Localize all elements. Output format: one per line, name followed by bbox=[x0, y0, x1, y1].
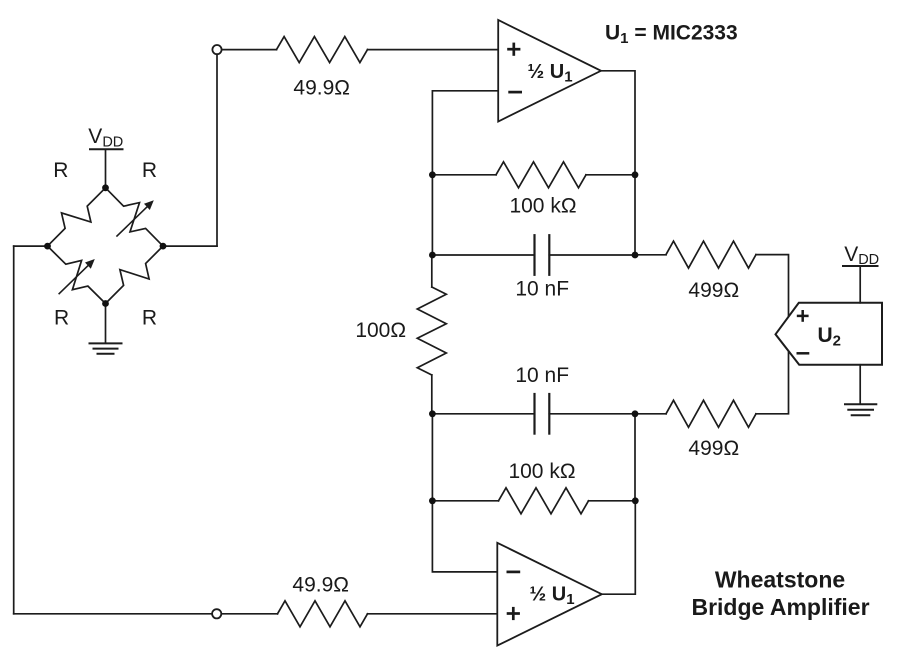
resistor 49.9 ohm top bbox=[277, 37, 368, 63]
op-amp U1A minus sign bbox=[508, 91, 522, 94]
svg-text:100 kΩ: 100 kΩ bbox=[509, 195, 576, 218]
node cap2 right bbox=[632, 410, 639, 417]
wire cap1 right lead bbox=[549, 254, 635, 256]
wire bottom terminal to resistor 49.9 bottom bbox=[221, 613, 277, 615]
svg-text:10 nF: 10 nF bbox=[515, 364, 569, 387]
resistor 499 ohm bottom bbox=[666, 400, 756, 427]
node 100k2 right bbox=[632, 497, 639, 504]
wire left rail vertical bbox=[13, 246, 15, 614]
wire bridge bottom node to ground bbox=[105, 304, 107, 344]
resistor 499 ohm top bbox=[666, 241, 756, 268]
wire vertical from top terminal down to bridge right node bbox=[216, 54, 218, 246]
wire U1A output to right rail bbox=[601, 71, 635, 175]
wire top from terminal to resistor R 49.9 top bbox=[222, 49, 277, 51]
svg-text:49.9Ω: 49.9Ω bbox=[292, 574, 349, 597]
bridge resistor R top-left bbox=[48, 188, 106, 246]
svg-text:U1 = MIC2333: U1 = MIC2333 bbox=[605, 22, 738, 48]
capacitor 10 nF bottom plate left bbox=[533, 394, 535, 434]
bridge resistor R top-right (variable) bbox=[106, 188, 164, 246]
op-amp U1B minus sign bbox=[507, 571, 521, 574]
svg-text:499Ω: 499Ω bbox=[688, 279, 739, 302]
wire left rail 100k1 to cap1 bbox=[431, 175, 433, 255]
svg-text:Wheatstone: Wheatstone bbox=[715, 567, 845, 593]
svg-text:R: R bbox=[142, 159, 157, 182]
svg-text:10 nF: 10 nF bbox=[515, 278, 569, 301]
node cap1 right bbox=[632, 252, 639, 259]
ground symbol (bridge) bbox=[89, 342, 123, 344]
node 100k2 left bbox=[429, 497, 436, 504]
op-amp U1B triangle bbox=[497, 543, 602, 646]
node bridge top bbox=[102, 184, 109, 191]
wire U1B output to right rail bbox=[602, 501, 636, 594]
power symbol VDD bar (bridge) bbox=[89, 148, 124, 150]
capacitor 10 nF bottom plate right bbox=[548, 394, 550, 434]
terminal top (open circle) bbox=[212, 45, 221, 54]
wire 100 ohm bottom lead bbox=[431, 375, 433, 414]
svg-text:100 kΩ: 100 kΩ bbox=[508, 460, 575, 483]
node bridge bottom bbox=[102, 300, 109, 307]
wire VDD to bridge top node bbox=[105, 150, 107, 188]
arrow variable resistor top-right bbox=[116, 200, 153, 236]
wire bridge right node to vertical bbox=[163, 245, 217, 247]
resistor 100 kOhm bottom bbox=[499, 488, 589, 514]
svg-text:R: R bbox=[54, 306, 69, 329]
wire cap2 right lead bbox=[549, 413, 635, 415]
capacitor 10 nF top plate right bbox=[548, 235, 550, 275]
wire 499 bottom to U2 - input bbox=[756, 351, 789, 414]
wire U2 ground bbox=[859, 365, 861, 404]
wire 100k2 right lead bbox=[589, 500, 636, 502]
wire 100k2 left lead bbox=[432, 500, 498, 502]
wire U1B inverting input feedback bbox=[432, 501, 497, 572]
op-amp U1A triangle bbox=[498, 20, 601, 122]
power symbol VDD bar (U2) bbox=[842, 265, 879, 267]
node cap2 left bbox=[429, 410, 436, 417]
wire cap2 left lead bbox=[432, 413, 534, 415]
arrow variable resistor bottom-left bbox=[59, 259, 95, 294]
wire 100k1 left lead bbox=[432, 174, 496, 176]
node bridge right bbox=[160, 243, 167, 250]
svg-text:VDD: VDD bbox=[88, 125, 123, 151]
wire bottom left to terminal bbox=[14, 613, 213, 615]
wire cap2 row to 499 bottom resistor bbox=[635, 413, 666, 415]
resistor 100 ohm vertical bbox=[417, 287, 446, 375]
svg-text:R: R bbox=[53, 159, 68, 182]
capacitor 10 nF top plate left bbox=[533, 235, 535, 275]
wire bridge left node to left rail bbox=[14, 245, 48, 247]
wire 100 ohm top lead bbox=[431, 255, 433, 287]
wire left rail cap2 to 100k2 bbox=[431, 414, 433, 501]
node 100k1 right bbox=[632, 171, 639, 178]
op-amp U2 minus sign bbox=[797, 352, 810, 355]
svg-text:499Ω: 499Ω bbox=[688, 437, 739, 460]
wire U2 VDD bbox=[859, 267, 861, 303]
op-amp U2 plus sign bbox=[797, 310, 809, 322]
wire 100k1 right lead bbox=[586, 174, 635, 176]
svg-text:Bridge Amplifier: Bridge Amplifier bbox=[691, 594, 869, 620]
wire from 49.9 bottom to U1B + input bbox=[368, 613, 498, 615]
bridge resistor R bottom-left (variable) bbox=[48, 246, 106, 303]
wire right rail 100k1 to cap1 bbox=[634, 175, 636, 255]
svg-text:49.9Ω: 49.9Ω bbox=[293, 77, 350, 100]
resistor 100 kOhm top bbox=[496, 162, 586, 188]
op-amp U2 pentagon body bbox=[776, 303, 883, 365]
wire cap1 left lead bbox=[432, 254, 534, 256]
wire U1A inverting input feedback bbox=[432, 91, 498, 175]
terminal bottom (open circle) bbox=[212, 609, 221, 618]
node bridge left bbox=[44, 243, 51, 250]
wire right rail cap2 to 100k2 bbox=[634, 414, 636, 501]
svg-text:R: R bbox=[142, 306, 157, 329]
svg-text:VDD: VDD bbox=[844, 243, 879, 268]
resistor 49.9 ohm bottom bbox=[278, 601, 368, 627]
op-amp U1A plus sign bbox=[507, 43, 520, 56]
ground symbol (U2) bbox=[844, 403, 877, 405]
wire 499 top to U2 + input bbox=[756, 255, 789, 317]
wire cap1 row to 499 top resistor bbox=[635, 254, 666, 256]
wire from 49.9 top resistor to U1A + input bbox=[368, 49, 499, 51]
node cap1 left bbox=[429, 252, 436, 259]
bridge resistor R bottom-right bbox=[106, 246, 164, 303]
svg-text:100Ω: 100Ω bbox=[355, 319, 406, 342]
op-amp U1B plus sign bbox=[507, 607, 520, 620]
node 100k1 left bbox=[429, 171, 436, 178]
